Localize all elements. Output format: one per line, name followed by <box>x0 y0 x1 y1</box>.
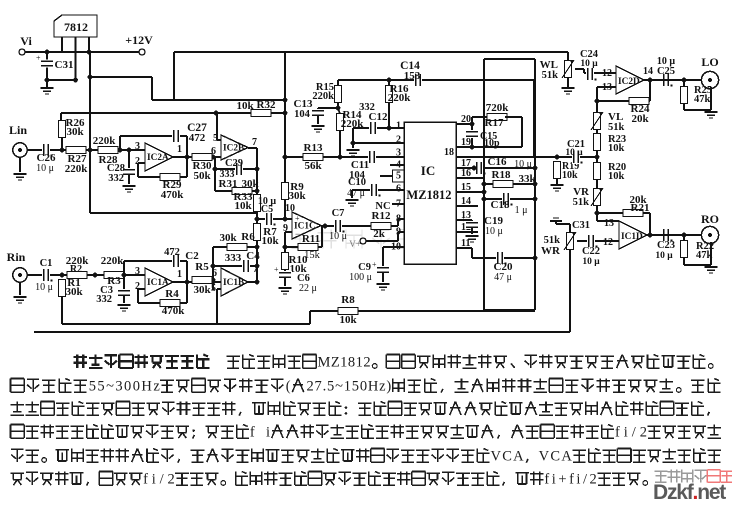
svg-text:R6: R6 <box>241 231 255 243</box>
svg-text:V+: V+ <box>349 239 361 249</box>
svg-text:+: + <box>372 260 377 269</box>
svg-text:R17: R17 <box>485 117 504 129</box>
svg-text:100 μ: 100 μ <box>349 272 372 283</box>
svg-text:IC2A: IC2A <box>147 153 169 163</box>
svg-text:C7: C7 <box>332 208 345 219</box>
svg-text:56k: 56k <box>304 160 322 172</box>
svg-text:6: 6 <box>396 184 401 195</box>
svg-text:R21: R21 <box>631 202 650 214</box>
svg-text:470k: 470k <box>162 305 186 317</box>
svg-text:10 μ: 10 μ <box>35 282 53 293</box>
svg-text:7: 7 <box>253 264 258 275</box>
svg-text:C10: C10 <box>348 177 366 188</box>
svg-text:30k: 30k <box>219 232 237 244</box>
svg-text:IC2D: IC2D <box>618 77 640 87</box>
svg-text:C25: C25 <box>657 66 675 77</box>
svg-text:30k: 30k <box>66 126 84 138</box>
svg-text:2: 2 <box>396 135 401 146</box>
svg-text:51k: 51k <box>542 70 559 81</box>
svg-text:20k: 20k <box>631 113 649 125</box>
svg-text:3: 3 <box>396 148 401 159</box>
svg-text:10 μ: 10 μ <box>485 226 503 237</box>
svg-text:C18: C18 <box>491 199 510 211</box>
svg-text:333: 333 <box>225 252 242 264</box>
svg-text:R8: R8 <box>341 294 355 306</box>
svg-text:13: 13 <box>604 218 614 229</box>
svg-text:10k: 10k <box>261 235 279 247</box>
svg-text:3: 3 <box>135 266 140 277</box>
svg-text:1: 1 <box>177 144 182 155</box>
svg-text:R2: R2 <box>70 264 82 275</box>
svg-text:47k: 47k <box>694 94 711 105</box>
svg-text:10 μ: 10 μ <box>329 231 347 242</box>
svg-text:3: 3 <box>135 141 140 152</box>
svg-text:+12V: +12V <box>125 33 153 47</box>
svg-text:12: 12 <box>603 237 613 248</box>
svg-text:472: 472 <box>189 132 206 144</box>
svg-text:+: + <box>295 214 300 223</box>
svg-text:fi/2: fi/2 <box>143 471 175 487</box>
svg-text:220k: 220k <box>312 91 334 102</box>
svg-text:VCA: VCA <box>490 448 524 464</box>
svg-text:10k: 10k <box>236 100 254 112</box>
svg-text:332: 332 <box>96 294 112 305</box>
svg-text:14: 14 <box>643 66 653 77</box>
svg-text:220k: 220k <box>93 135 117 147</box>
svg-text:220k: 220k <box>388 92 412 104</box>
svg-text:1: 1 <box>177 269 182 280</box>
svg-text:10 μ: 10 μ <box>36 163 54 174</box>
svg-text:10: 10 <box>391 242 401 253</box>
svg-text:470k: 470k <box>161 189 185 201</box>
svg-text:30k: 30k <box>65 286 83 298</box>
svg-text:R31: R31 <box>219 178 238 190</box>
svg-text:C31: C31 <box>55 59 74 71</box>
svg-text:104: 104 <box>294 109 311 120</box>
svg-text:10 μ: 10 μ <box>655 251 673 261</box>
svg-text:10 μ: 10 μ <box>582 257 600 267</box>
svg-text:5: 5 <box>396 171 401 182</box>
svg-text:IC: IC <box>421 163 435 178</box>
svg-text:IC1B: IC1B <box>223 278 244 288</box>
svg-text:51k: 51k <box>573 197 590 208</box>
svg-text:C12: C12 <box>369 111 388 123</box>
svg-text:MZ1812: MZ1812 <box>317 354 370 370</box>
svg-text:220k: 220k <box>101 255 125 267</box>
svg-text:IC1D: IC1D <box>621 232 643 242</box>
svg-text:220k: 220k <box>65 163 89 175</box>
svg-text:6: 6 <box>212 268 217 279</box>
svg-text:2k: 2k <box>373 228 386 240</box>
svg-text:30k: 30k <box>193 284 211 296</box>
svg-text:47 μ: 47 μ <box>494 272 512 283</box>
svg-text:47 μ: 47 μ <box>347 188 365 199</box>
svg-text:55~300Hz: 55~300Hz <box>89 378 161 394</box>
svg-text:C4: C4 <box>246 250 260 262</box>
svg-text:153: 153 <box>404 70 421 82</box>
svg-text:12: 12 <box>602 68 612 79</box>
svg-text:10k: 10k <box>608 143 625 154</box>
svg-text:fi/2: fi/2 <box>615 424 647 440</box>
svg-text:C16: C16 <box>488 156 507 168</box>
svg-text:+: + <box>36 54 41 63</box>
svg-text:MZ1812: MZ1812 <box>406 188 451 202</box>
svg-text:472: 472 <box>164 247 180 258</box>
svg-text:47k: 47k <box>696 250 713 261</box>
svg-text:9: 9 <box>396 227 401 238</box>
svg-text:C29: C29 <box>225 158 243 169</box>
svg-text:fi+fi/2: fi+fi/2 <box>544 471 596 487</box>
svg-text:R5: R5 <box>195 261 209 273</box>
svg-text:Lin: Lin <box>9 123 27 137</box>
svg-text:R4: R4 <box>165 288 179 300</box>
svg-text:RO: RO <box>701 212 719 226</box>
svg-text:10k: 10k <box>608 171 625 182</box>
svg-text:5: 5 <box>211 283 216 294</box>
svg-text:10 μ: 10 μ <box>565 148 583 158</box>
svg-text:1: 1 <box>396 121 401 132</box>
svg-text:18: 18 <box>444 147 454 158</box>
svg-text:C23: C23 <box>657 240 675 251</box>
svg-text:IC1A: IC1A <box>147 278 169 288</box>
svg-text:R13: R13 <box>304 142 323 154</box>
svg-text:10k: 10k <box>234 200 252 212</box>
svg-text:C31: C31 <box>572 220 590 231</box>
svg-text:51k: 51k <box>608 122 625 133</box>
svg-text:Dzkf.net: Dzkf.net <box>653 481 726 500</box>
svg-text:1 μ: 1 μ <box>515 205 528 216</box>
svg-text:R32: R32 <box>257 99 276 111</box>
svg-text:30k: 30k <box>288 190 306 202</box>
svg-text:−: − <box>295 229 300 239</box>
svg-text:10 μ: 10 μ <box>514 159 532 170</box>
svg-text:6: 6 <box>211 146 216 157</box>
svg-text:C5: C5 <box>261 204 273 215</box>
svg-text:10k: 10k <box>562 170 578 181</box>
svg-text:VCA: VCA <box>539 448 573 464</box>
svg-text:22 μ: 22 μ <box>299 283 317 294</box>
svg-text:(: ( <box>286 378 291 394</box>
svg-text:R18: R18 <box>492 169 511 181</box>
svg-text:C15: C15 <box>480 131 497 142</box>
svg-text:Vi: Vi <box>20 34 32 48</box>
svg-text:R11: R11 <box>302 233 320 245</box>
svg-text:7812: 7812 <box>64 20 88 34</box>
svg-text:NC: NC <box>375 201 390 212</box>
svg-text:C1: C1 <box>40 258 53 269</box>
svg-text:8: 8 <box>396 214 401 225</box>
svg-text:C22: C22 <box>582 246 600 257</box>
svg-text:IC2B: IC2B <box>223 144 244 154</box>
svg-text:Rin: Rin <box>7 250 26 264</box>
svg-text:30k: 30k <box>241 178 259 190</box>
svg-text:332: 332 <box>108 173 124 184</box>
svg-text:LO: LO <box>701 55 718 69</box>
svg-text:50k: 50k <box>193 170 211 182</box>
svg-text:10k: 10k <box>339 314 357 326</box>
svg-text:+: + <box>274 265 279 274</box>
svg-text:WR: WR <box>541 245 561 257</box>
svg-text:10 μ: 10 μ <box>580 59 598 69</box>
svg-text:+: + <box>461 215 466 224</box>
svg-text:7: 7 <box>252 137 257 148</box>
svg-text:720k: 720k <box>486 102 510 114</box>
svg-text:27.5~150Hz): 27.5~150Hz) <box>306 378 391 394</box>
